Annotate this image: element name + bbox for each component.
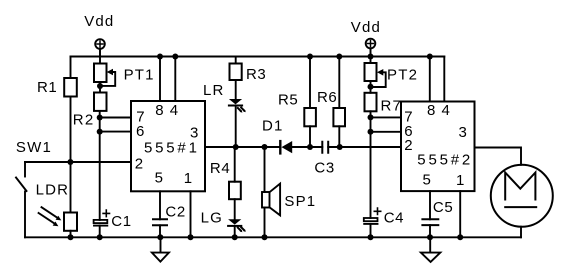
svg-text:555#2: 555#2 <box>417 152 473 169</box>
junction R5 rail <box>307 54 313 60</box>
svg-text:R7: R7 <box>381 97 403 114</box>
junction node pin7 tap chip2 <box>368 114 374 120</box>
resistor R2 <box>94 93 107 111</box>
junction output / LR branch <box>233 144 239 150</box>
junction PT2 wiper node <box>368 84 374 90</box>
junction C2 bottom <box>157 234 163 240</box>
svg-text:Vdd: Vdd <box>351 19 381 36</box>
wire R2 bottom down to C1 <box>99 111 101 220</box>
wire pin 8 chip1 to rail <box>159 57 161 102</box>
junction R6 bottom <box>337 144 343 150</box>
svg-text:C1: C1 <box>111 213 131 230</box>
wire top supply rail <box>71 56 445 58</box>
switch SW1 <box>16 162 27 237</box>
svg-text:555#1: 555#1 <box>144 139 200 156</box>
LDR photoresistor <box>39 162 77 237</box>
svg-text:C2: C2 <box>165 204 185 221</box>
potentiometer PT1 <box>94 57 115 93</box>
svg-text:4: 4 <box>170 102 178 119</box>
Vdd supply symbol 1 <box>95 39 105 56</box>
LED LR <box>229 99 246 147</box>
Vdd supply symbol 2 <box>366 39 376 57</box>
svg-text:1: 1 <box>456 172 464 189</box>
resistor R7 <box>365 93 377 112</box>
svg-text:R4: R4 <box>210 160 230 177</box>
svg-text:D1: D1 <box>262 117 284 134</box>
capacitor C4 electrolytic <box>364 208 381 237</box>
wire rail left drop to R1 <box>70 57 72 79</box>
junction SP1 bottom <box>262 234 268 240</box>
svg-text:LG: LG <box>201 209 223 226</box>
svg-text:R6: R6 <box>317 89 337 106</box>
svg-text:6: 6 <box>136 123 144 140</box>
junction R5 bottom <box>307 144 313 150</box>
wire pin 4 chip2 to rail <box>443 57 445 102</box>
junction R6 rail <box>336 54 342 60</box>
junction C4 bottom <box>368 234 374 240</box>
svg-text:8: 8 <box>155 102 163 119</box>
junction LDR bottom <box>68 234 74 240</box>
svg-text:C3: C3 <box>314 159 334 176</box>
resistor R5 <box>304 57 316 148</box>
svg-text:SW1: SW1 <box>16 139 52 156</box>
svg-text:C4: C4 <box>384 210 404 227</box>
svg-text:PT1: PT1 <box>124 66 155 83</box>
junction pin1 ground <box>188 234 194 240</box>
wire to pin 7 of 555#2 <box>371 116 402 118</box>
capacitor C5 <box>422 191 438 237</box>
resistor R6 <box>333 57 345 148</box>
svg-text:8: 8 <box>427 102 435 119</box>
svg-text:5: 5 <box>423 172 431 189</box>
junction pin1 chip2 ground <box>457 234 463 240</box>
junction pin8 rail <box>157 54 163 60</box>
svg-text:1: 1 <box>184 170 192 187</box>
wire to pin 6 of 555#1 <box>100 131 131 133</box>
svg-text:2: 2 <box>135 155 143 172</box>
svg-text:R2: R2 <box>73 112 95 129</box>
wire R1 bottom to trigger line <box>70 97 72 163</box>
junction C1 bottom <box>97 234 103 240</box>
wire R7 bottom down to C4 <box>370 111 372 218</box>
diode D1 <box>280 141 322 153</box>
junction output / SP1 branch <box>262 144 268 150</box>
wire pin 1 chip1 to ground rail <box>190 191 192 237</box>
junction pin4 rail <box>172 54 178 60</box>
svg-text:LDR: LDR <box>36 182 70 199</box>
op 555#1 IC body <box>131 101 205 191</box>
svg-text:PT2: PT2 <box>387 66 418 83</box>
wire pin 8 chip2 to rail <box>429 57 431 102</box>
svg-text:2: 2 <box>404 137 412 154</box>
ground symbol 2 <box>421 237 440 262</box>
capacitor C2 <box>153 191 167 237</box>
wire trigger line to pin 2 of 555#1 <box>25 161 131 163</box>
junction node pin7 tap <box>97 115 103 121</box>
capacitor C1 electrolytic <box>94 210 110 237</box>
svg-text:3: 3 <box>459 124 467 141</box>
svg-text:LR: LR <box>203 82 225 99</box>
svg-text:4: 4 <box>442 102 450 119</box>
svg-text:5: 5 <box>155 169 163 186</box>
svg-text:R5: R5 <box>278 91 298 108</box>
wire bottom ground rail <box>25 236 521 238</box>
wire to pin 6 of 555#2 <box>371 131 402 133</box>
ground symbol 1 <box>152 237 169 261</box>
LED LG <box>228 219 246 237</box>
speaker SP1 <box>262 147 280 237</box>
junction Vdd2 rail <box>368 54 374 60</box>
junction PT1 wiper node <box>97 83 103 89</box>
wire pin 1 chip2 to ground rail <box>459 191 461 237</box>
resistor R3 <box>230 57 242 100</box>
svg-text:R1: R1 <box>37 79 57 96</box>
wire pin 4 chip1 to rail <box>174 57 176 102</box>
junction C5 bottom <box>427 234 433 240</box>
svg-text:Vdd: Vdd <box>84 13 114 30</box>
junction pin8 chip2 rail <box>427 54 433 60</box>
wire pin 3 output 555#2 to motor <box>475 148 522 165</box>
resistor R1 <box>64 78 77 97</box>
junction R1/LDR/trigger <box>67 159 73 165</box>
junction LG bottom <box>232 234 238 240</box>
capacitor C3 <box>322 142 401 153</box>
svg-text:C5: C5 <box>433 199 453 216</box>
junction node pin6 tap chip2 <box>368 129 374 135</box>
op 555#2 IC body <box>401 102 475 192</box>
svg-text:R3: R3 <box>246 66 266 83</box>
potentiometer PT2 <box>365 57 386 93</box>
wire to pin 7 of 555#1 <box>100 117 131 119</box>
resistor R4 <box>229 147 241 219</box>
svg-text:SP1: SP1 <box>284 193 316 210</box>
junction node pin6 tap <box>97 129 103 135</box>
wire pin 3 output of 555#1 <box>205 146 280 148</box>
motor M1 <box>491 165 553 238</box>
